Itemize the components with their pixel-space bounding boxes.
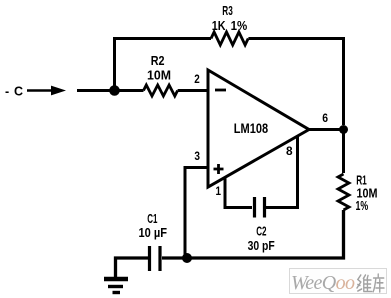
wire C2 right to pin 8 lead up (266, 136, 298, 208)
input arrow (27, 89, 54, 92)
resistor R3 (211, 32, 248, 45)
svg-text:1: 1 (216, 184, 222, 198)
watermark 维 glyph (357, 275, 372, 292)
svg-text:WeeQoo: WeeQoo (291, 272, 355, 294)
svg-text:-: - (5, 85, 9, 99)
resistor R2 (144, 85, 178, 96)
svg-text:C2: C2 (256, 224, 266, 239)
node C (ground bus / C1 node) (182, 253, 192, 263)
minus sign at inverting input (215, 89, 226, 92)
svg-text:C: C (14, 85, 23, 99)
wire pin 1 lead down and right to C2 (225, 178, 252, 208)
svg-text:C1: C1 (147, 211, 157, 226)
wire input: from arrow to node (77, 89, 115, 92)
svg-text:10 µF: 10 µF (139, 225, 168, 240)
resistor R1 (338, 174, 349, 210)
svg-text:R3: R3 (222, 3, 233, 18)
wire node to R2 (115, 89, 144, 92)
node B (output node) (339, 125, 348, 134)
wire C1 left to ground stub (116, 258, 149, 277)
wire R2 to pin 2 (178, 89, 208, 92)
watermark 库 glyph (373, 274, 384, 292)
capacitor C2 plates (255, 197, 265, 218)
svg-text:10M: 10M (147, 68, 171, 83)
wire pin 3: left and down to ground bus (185, 168, 208, 259)
wire output node down to R1 (342, 130, 345, 174)
wire R1 bottom to ground bus corner (162, 210, 344, 258)
ground (104, 277, 128, 282)
node A (input summing node) (109, 85, 120, 96)
svg-text:3: 3 (194, 149, 200, 163)
svg-text:1%: 1% (356, 198, 369, 213)
wire top-right: from R3 to right vertical down to output node (248, 39, 343, 126)
svg-text:1K: 1K (212, 18, 226, 33)
svg-text:R2: R2 (151, 53, 165, 68)
wire output: apex to output node (309, 128, 344, 131)
svg-text:8: 8 (286, 144, 293, 158)
capacitor C1 plates (150, 246, 161, 271)
op-amp U1 LM108 triangle (208, 70, 309, 187)
svg-text:30 pF: 30 pF (248, 238, 275, 253)
watermark box (290, 269, 387, 294)
svg-text:LM108: LM108 (234, 121, 269, 136)
svg-text:6: 6 (322, 111, 328, 125)
wire top-left: from input node up and right to R3 (115, 39, 212, 91)
plus sign at non-inverting input (214, 164, 224, 174)
svg-text:1%: 1% (231, 18, 248, 33)
svg-text:2: 2 (194, 72, 200, 86)
